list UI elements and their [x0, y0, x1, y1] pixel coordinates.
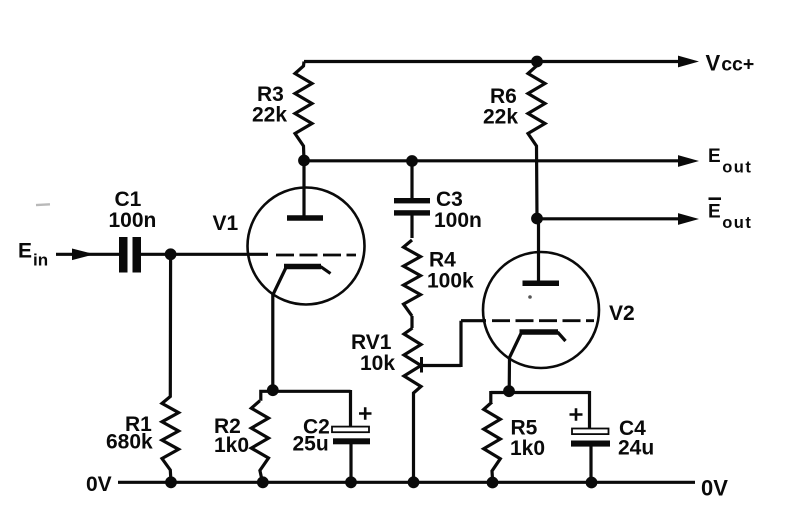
svg-text:100n: 100n	[434, 209, 482, 232]
svg-text:25u: 25u	[293, 433, 329, 456]
svg-text:1k0: 1k0	[214, 434, 249, 457]
svg-text:Ein: Ein	[18, 240, 48, 270]
svg-text:Eout: Eout	[708, 146, 752, 177]
svg-text:1k0: 1k0	[510, 437, 545, 460]
svg-text:24u: 24u	[618, 437, 654, 460]
svg-text:V2: V2	[609, 302, 635, 325]
svg-text:22k: 22k	[252, 104, 287, 127]
svg-text:C1: C1	[115, 188, 142, 211]
svg-text:22k: 22k	[483, 106, 518, 129]
svg-text:0V: 0V	[86, 473, 112, 496]
svg-text:V1: V1	[213, 212, 239, 235]
svg-text:Eout: Eout	[708, 201, 752, 232]
svg-text:100k: 100k	[427, 270, 474, 293]
svg-text:680k: 680k	[106, 431, 153, 454]
svg-text:0V: 0V	[701, 476, 728, 501]
svg-text:RV1: RV1	[351, 331, 392, 354]
svg-text:100n: 100n	[109, 209, 157, 232]
svg-text:R4: R4	[429, 249, 456, 272]
svg-text:Vcc+: Vcc+	[706, 51, 755, 76]
svg-text:10k: 10k	[360, 352, 395, 375]
svg-text:C3: C3	[436, 188, 463, 211]
